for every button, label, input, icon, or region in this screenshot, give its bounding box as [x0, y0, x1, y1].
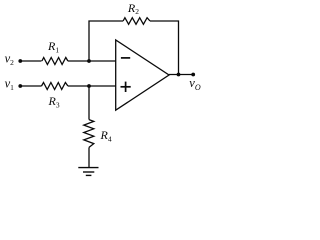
wire v1 to R3: [20, 85, 41, 87]
resistor R4: [84, 120, 94, 148]
wire R3 to op-amp non-inverting input: [68, 85, 116, 87]
wire feedback left vertical: [89, 21, 123, 61]
resistor R3: [42, 83, 68, 90]
op-amp minus pin marking: [121, 57, 130, 59]
op-amp plus pin marking: [121, 82, 131, 92]
node v1 terminal: [18, 84, 22, 88]
node B (non-inverting input junction): [87, 84, 91, 88]
wire node B down to R4: [88, 86, 90, 120]
wire v2 to R1: [20, 60, 41, 62]
node A (inverting input junction): [87, 59, 91, 63]
node v2 terminal: [18, 59, 22, 63]
resistor R2: [123, 18, 150, 25]
wire R4 to ground: [88, 147, 90, 167]
wire R1 to op-amp inverting input: [68, 60, 116, 62]
resistor R1: [42, 58, 68, 65]
ground: [78, 168, 98, 176]
wire feedback right to output: [150, 21, 179, 75]
op-amp U1: [116, 40, 169, 110]
wire op-amp output: [169, 74, 193, 76]
node vO terminal: [191, 73, 195, 77]
node output junction: [177, 73, 181, 77]
